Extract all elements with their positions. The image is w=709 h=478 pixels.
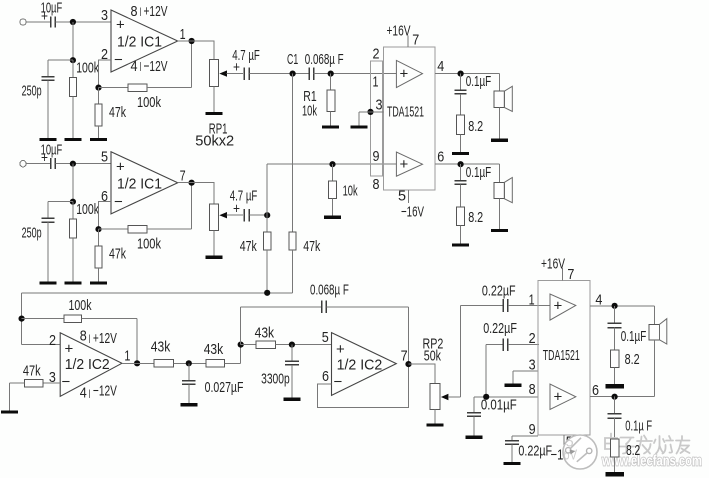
pin 2 bbox=[373, 46, 380, 63]
resistor 10k (pin9 bias) bbox=[329, 164, 358, 216]
node R1 top bbox=[328, 71, 334, 77]
pin 9 bbox=[373, 148, 380, 165]
svg-text:9: 9 bbox=[529, 421, 536, 438]
svg-text:+16V: +16V bbox=[387, 23, 411, 40]
svg-text:5: 5 bbox=[322, 329, 329, 346]
speaker LS2 bbox=[494, 178, 512, 229]
op-amp U3b 1/2 IC2 bbox=[332, 333, 397, 396]
svg-text:47k: 47k bbox=[303, 238, 320, 255]
ground bbox=[90, 138, 107, 141]
svg-text:TDA1521: TDA1521 bbox=[543, 347, 580, 364]
input terminal J1 bbox=[20, 19, 26, 25]
wire bbox=[178, 41, 214, 60]
svg-text:100k: 100k bbox=[137, 94, 161, 111]
potentiometer RP2 50k bbox=[423, 336, 444, 424]
pin 9 with 0.22uF to ground bbox=[505, 421, 552, 462]
svg-text:6: 6 bbox=[322, 368, 329, 385]
ground bbox=[40, 138, 57, 141]
svg-text:+: + bbox=[116, 17, 125, 34]
pin 4 tick -12V bbox=[80, 383, 117, 402]
svg-text:8.2: 8.2 bbox=[626, 442, 640, 459]
wire left riser bbox=[21, 293, 23, 345]
svg-text:2: 2 bbox=[529, 330, 536, 347]
capacitor 10uF (ch1 input) bbox=[41, 0, 63, 28]
svg-text:1: 1 bbox=[180, 26, 186, 43]
wire pin9 input line bbox=[267, 163, 396, 165]
node out IC2a bbox=[134, 360, 140, 366]
svg-text:8: 8 bbox=[529, 381, 536, 398]
svg-text:10k: 10k bbox=[343, 183, 358, 200]
svg-text:+: + bbox=[116, 159, 125, 176]
capacitor 0.22uF (pin2 input) bbox=[483, 320, 539, 397]
svg-text:TDA1521: TDA1521 bbox=[387, 104, 424, 121]
label TDA1521 bbox=[543, 347, 580, 364]
potentiometer RP1 gang B bbox=[209, 204, 218, 256]
svg-text:100k: 100k bbox=[76, 201, 99, 218]
resistor 43k (lpf 1) bbox=[151, 339, 206, 368]
svg-text:1/2 IC1: 1/2 IC1 bbox=[117, 34, 162, 51]
svg-text:1/2 IC2: 1/2 IC2 bbox=[65, 356, 110, 373]
wiper arrow RP1b bbox=[219, 201, 243, 219]
wire jog up bbox=[240, 345, 242, 364]
resistor 47k (mix right) bbox=[289, 232, 321, 293]
watermark char zi bbox=[620, 438, 635, 454]
capacitor 0.1uF (zobel4) bbox=[608, 397, 622, 439]
pin 6 output bbox=[590, 382, 655, 399]
ground bbox=[90, 282, 107, 285]
ground bbox=[452, 152, 469, 155]
ground bbox=[452, 243, 469, 246]
svg-text:8: 8 bbox=[373, 176, 380, 193]
svg-text:1/2 IC2: 1/2 IC2 bbox=[337, 356, 383, 373]
svg-text:8: 8 bbox=[131, 3, 138, 20]
wiper arrow RP2 bbox=[441, 305, 461, 400]
capacitor 0.1uF (zobel1) bbox=[455, 73, 492, 115]
ground (thick) bbox=[605, 384, 624, 388]
wire bbox=[409, 364, 435, 383]
watermark url text bbox=[601, 453, 702, 470]
ground bbox=[465, 436, 482, 439]
ground bbox=[283, 398, 300, 401]
node 10k input bbox=[329, 161, 335, 167]
pin 1 bbox=[124, 348, 130, 365]
pin 5 -16V bbox=[551, 434, 578, 464]
op-amp U1a 1/2 IC1 bbox=[111, 10, 178, 72]
svg-text:+12V: +12V bbox=[144, 3, 168, 20]
node out2 bbox=[189, 180, 195, 186]
pin 6 bbox=[322, 368, 329, 385]
resistor 43k (lpf 2) bbox=[204, 341, 241, 367]
svg-text:+: + bbox=[400, 156, 409, 173]
pin 5 bbox=[322, 329, 329, 346]
svg-text:3300p: 3300p bbox=[261, 371, 290, 388]
svg-text:3: 3 bbox=[529, 356, 536, 373]
op-amp U3a 1/2 IC2 bbox=[60, 333, 122, 397]
node sub6 bbox=[612, 394, 618, 400]
node M1 bbox=[186, 360, 192, 366]
wire bbox=[122, 362, 154, 364]
wire bbox=[72, 22, 74, 60]
pin 8 tick +12V bbox=[80, 328, 117, 348]
node sub4 bbox=[612, 303, 618, 309]
svg-text:1: 1 bbox=[124, 348, 130, 365]
pin 3 ground bbox=[359, 97, 384, 126]
svg-text:43k: 43k bbox=[204, 341, 224, 358]
node mix bbox=[264, 290, 270, 296]
resistor 47k (ch1) bbox=[95, 88, 126, 138]
speaker LS1 bbox=[494, 86, 512, 138]
ground bbox=[65, 138, 82, 141]
capacitor 250p (ch1) bbox=[22, 77, 55, 100]
pin 2 bbox=[101, 46, 108, 63]
wire pin2 stub bbox=[99, 60, 112, 87]
svg-text:−12V: −12V bbox=[144, 58, 168, 75]
pin 5 -16V bbox=[398, 188, 424, 221]
capacitor 0.22uF (pin1 input) bbox=[461, 283, 550, 312]
pin 4 tick -12V bbox=[131, 58, 168, 75]
ground bbox=[206, 112, 223, 115]
svg-text:5: 5 bbox=[101, 149, 108, 166]
svg-text:C1: C1 bbox=[287, 51, 298, 68]
svg-text:−: − bbox=[334, 374, 343, 391]
watermark char dian bbox=[605, 434, 618, 452]
node B1 bbox=[95, 85, 101, 91]
svg-text:−: − bbox=[62, 374, 71, 391]
svg-text:+12V: +12V bbox=[93, 330, 117, 347]
svg-text:8: 8 bbox=[80, 328, 87, 345]
ground bbox=[180, 403, 197, 406]
resistor 47k (IC2a inverting input) bbox=[10, 363, 61, 411]
pin 1 bbox=[529, 292, 535, 309]
svg-text:+16V: +16V bbox=[541, 256, 565, 273]
svg-text:0.22µF: 0.22µF bbox=[518, 443, 552, 460]
node C1 bbox=[287, 51, 298, 77]
pin 6 output bbox=[435, 149, 499, 166]
resistor 100k (ch1 bias) bbox=[69, 60, 99, 138]
svg-text:0.1µ F: 0.1µ F bbox=[625, 418, 652, 435]
ground bbox=[206, 256, 223, 259]
svg-text:6: 6 bbox=[101, 188, 108, 205]
capacitor 0.01uF bbox=[467, 397, 517, 436]
wire bbox=[47, 80, 49, 138]
svg-text:10k: 10k bbox=[302, 103, 317, 120]
pin 3 bbox=[101, 7, 108, 24]
svg-text:7: 7 bbox=[180, 168, 186, 185]
pin 1 bbox=[180, 26, 186, 43]
svg-text:10µF: 10µF bbox=[41, 142, 63, 159]
svg-text:−: − bbox=[114, 194, 123, 211]
node out6 bbox=[458, 161, 464, 167]
op-amp U1b 1/2 IC1 bbox=[111, 152, 178, 214]
pin 8 tick +12V bbox=[131, 3, 168, 20]
svg-text:0.01µF: 0.01µF bbox=[481, 397, 517, 414]
node out4 bbox=[458, 71, 464, 77]
wiper arrow RP1a bbox=[219, 59, 243, 77]
ground bbox=[322, 125, 339, 128]
resistor 100k (IC2a feedback) bbox=[22, 297, 138, 363]
svg-text:0.22µF: 0.22µF bbox=[482, 283, 516, 300]
wire bbox=[72, 164, 74, 202]
svg-text:+: + bbox=[554, 298, 563, 315]
pin 6 bbox=[101, 188, 108, 205]
svg-text:8.2: 8.2 bbox=[468, 118, 483, 135]
ground bbox=[1, 410, 18, 413]
wire riser from C1 bbox=[292, 74, 294, 232]
node N2 bbox=[264, 212, 270, 218]
speaker LS3 (subwoofer) bbox=[649, 319, 667, 397]
wire bbox=[178, 183, 214, 204]
svg-text:0.1µF: 0.1µF bbox=[621, 328, 647, 345]
svg-text:100k: 100k bbox=[137, 236, 161, 253]
wire mixing bus bbox=[22, 292, 293, 294]
wire bbox=[249, 73, 309, 75]
ground bbox=[491, 139, 508, 142]
pin 3 bbox=[49, 369, 56, 386]
node A2b bbox=[70, 199, 76, 205]
svg-text:8.2: 8.2 bbox=[625, 351, 640, 368]
pin 7 +16V bbox=[541, 256, 574, 284]
svg-text:9: 9 bbox=[373, 148, 380, 165]
svg-text:4.7 µF: 4.7 µF bbox=[230, 188, 258, 205]
svg-text:47k: 47k bbox=[109, 246, 126, 263]
resistor 47k (mix left) bbox=[240, 215, 271, 293]
resistor 8.2 (zobel3) bbox=[611, 350, 640, 384]
wire bbox=[48, 202, 73, 219]
ground bbox=[504, 384, 521, 387]
capacitor 0.068uF (sub feedback) bbox=[241, 282, 409, 365]
resistor 8.2 (zobel4) bbox=[611, 439, 640, 472]
svg-text:100k: 100k bbox=[69, 297, 92, 314]
ground bbox=[504, 462, 521, 465]
node out1 bbox=[189, 38, 195, 44]
svg-text:−: − bbox=[114, 52, 123, 69]
svg-text:50k: 50k bbox=[424, 348, 442, 365]
resistor 8.2 (zobel2) bbox=[457, 207, 484, 244]
capacitor 0.068uF (ch1 coupling) bbox=[305, 51, 344, 80]
pin 3 ground bbox=[513, 356, 538, 383]
amp B of TDA1521 bbox=[396, 152, 422, 176]
amp B of U4 bbox=[550, 384, 576, 409]
svg-text:0.1µF: 0.1µF bbox=[466, 164, 492, 181]
svg-text:4: 4 bbox=[437, 58, 444, 75]
ground bbox=[491, 229, 508, 232]
node A2 bbox=[70, 161, 76, 167]
resistor 43k (lpf 3) bbox=[241, 325, 332, 349]
input terminal J2 bbox=[20, 161, 26, 167]
pin 5 bbox=[101, 149, 108, 166]
svg-text:0.068µ F: 0.068µ F bbox=[310, 282, 349, 299]
inverting-input link box bbox=[371, 61, 383, 176]
wire bbox=[55, 163, 111, 165]
svg-text:8.2: 8.2 bbox=[468, 209, 483, 226]
ground bbox=[350, 125, 367, 128]
capacitor 0.1uF (zobel2) bbox=[455, 164, 492, 207]
svg-text:5: 5 bbox=[398, 188, 406, 205]
svg-text:100k: 100k bbox=[76, 60, 99, 77]
resistor 8.2 (zobel1) bbox=[457, 115, 484, 152]
node mix2 bbox=[19, 316, 25, 322]
resistor 100k (ch2 bias) bbox=[69, 201, 99, 282]
svg-text:0.1µF: 0.1µF bbox=[466, 73, 492, 90]
node J bbox=[238, 342, 244, 348]
svg-text:250p: 250p bbox=[22, 225, 42, 242]
pin 7 bbox=[180, 168, 186, 185]
ground bbox=[324, 216, 341, 219]
pin 8 bbox=[373, 176, 380, 193]
wire pin6 stub bbox=[99, 202, 112, 230]
capacitor 10uF (ch2 input) bbox=[41, 142, 63, 170]
capacitor 0.1uF (zobel3) bbox=[608, 306, 647, 350]
resistor R1 10k bbox=[302, 74, 335, 126]
svg-text:+: + bbox=[554, 389, 563, 406]
wire bbox=[47, 222, 49, 281]
capacitor 0.027uF bbox=[182, 363, 243, 403]
watermark char shao bbox=[654, 436, 673, 454]
watermark char you bbox=[676, 436, 690, 454]
wire to speaker1 bbox=[498, 74, 500, 92]
wire bbox=[26, 163, 50, 165]
resistor 47k (ch2) bbox=[95, 229, 126, 281]
pin 8 wire bbox=[474, 381, 538, 398]
svg-text:47k: 47k bbox=[23, 363, 41, 380]
watermark logo circle bbox=[563, 435, 597, 469]
wire to IC2a pin2 bbox=[22, 344, 61, 346]
svg-text:0.027µF: 0.027µF bbox=[205, 379, 244, 396]
ground (thick) bbox=[605, 472, 624, 476]
pin 7 +16V bbox=[387, 23, 420, 49]
label 0.1uF (zobel4) bbox=[625, 418, 652, 435]
pin 1 bbox=[373, 74, 379, 91]
amp A of U4 bbox=[550, 294, 576, 320]
svg-text:−16V: −16V bbox=[401, 204, 424, 221]
wire riser to pin9 line bbox=[266, 164, 268, 215]
svg-text:47k: 47k bbox=[109, 104, 126, 121]
svg-text:10µF: 10µF bbox=[41, 0, 63, 17]
svg-text:4.7 µF: 4.7 µF bbox=[232, 47, 260, 64]
resistor 100k feedback (ch1) bbox=[99, 41, 192, 111]
svg-text:3: 3 bbox=[376, 97, 383, 114]
IC U4 TDA1521 body bbox=[538, 281, 590, 435]
svg-text:43k: 43k bbox=[151, 339, 171, 356]
node K bbox=[289, 342, 295, 348]
wire to speaker2 bbox=[498, 164, 500, 182]
pin 4 output bbox=[590, 292, 655, 309]
resistor 100k feedback (ch2) bbox=[99, 183, 192, 253]
svg-text:4: 4 bbox=[131, 58, 138, 75]
potentiometer RP1 gang A 50kx2 bbox=[195, 60, 234, 150]
svg-text:+: + bbox=[400, 66, 409, 83]
pin 2 bbox=[49, 332, 56, 349]
wire to sub speaker bbox=[653, 306, 655, 325]
wire bbox=[55, 21, 111, 23]
wire pin6 feedback loop bbox=[318, 364, 409, 407]
svg-text:−12V: −12V bbox=[93, 383, 117, 400]
svg-text:7: 7 bbox=[412, 32, 419, 49]
wire bbox=[249, 214, 267, 216]
pin 4 output bbox=[435, 58, 499, 75]
svg-text:1: 1 bbox=[373, 74, 379, 91]
ground bbox=[426, 423, 443, 426]
watermark char fa bbox=[637, 436, 653, 454]
ground bbox=[40, 282, 57, 285]
pin 7 bbox=[401, 348, 408, 365]
ground bbox=[65, 282, 82, 285]
capacitor 4.7uF (ch2) bbox=[230, 188, 258, 222]
svg-text:4: 4 bbox=[80, 385, 87, 402]
capacitor 250p (ch2) bbox=[22, 218, 55, 241]
svg-text:1/2 IC1: 1/2 IC1 bbox=[117, 176, 162, 193]
amp A of TDA1521 bbox=[396, 60, 422, 87]
svg-text:0.068µ F: 0.068µ F bbox=[305, 51, 344, 68]
svg-text:+: + bbox=[65, 341, 74, 358]
svg-text:3: 3 bbox=[101, 7, 108, 24]
svg-text:7: 7 bbox=[567, 266, 574, 283]
svg-text:250p: 250p bbox=[22, 83, 42, 100]
node out IC2b bbox=[405, 361, 411, 367]
svg-text:1: 1 bbox=[529, 292, 535, 309]
capacitor 4.7uF (ch1) bbox=[232, 47, 260, 80]
node pin8 bbox=[483, 394, 489, 400]
svg-text:50kx2: 50kx2 bbox=[195, 133, 234, 150]
pin 2 bbox=[529, 330, 536, 347]
wire bbox=[48, 60, 73, 76]
node A1b bbox=[70, 57, 76, 63]
wire bbox=[314, 73, 397, 75]
wire bbox=[26, 21, 50, 23]
svg-text:2: 2 bbox=[49, 332, 56, 349]
svg-text:0.22µF: 0.22µF bbox=[483, 320, 517, 337]
IC U2 TDA1521 body bbox=[384, 47, 436, 190]
node B2 bbox=[95, 226, 101, 232]
svg-text:47k: 47k bbox=[240, 238, 257, 255]
svg-text:43k: 43k bbox=[255, 325, 275, 342]
capacitor 3300p bbox=[261, 345, 299, 398]
svg-text:2: 2 bbox=[373, 46, 380, 63]
label TDA1521 bbox=[387, 104, 424, 121]
svg-text:6: 6 bbox=[437, 149, 444, 166]
node A1 bbox=[70, 19, 76, 25]
